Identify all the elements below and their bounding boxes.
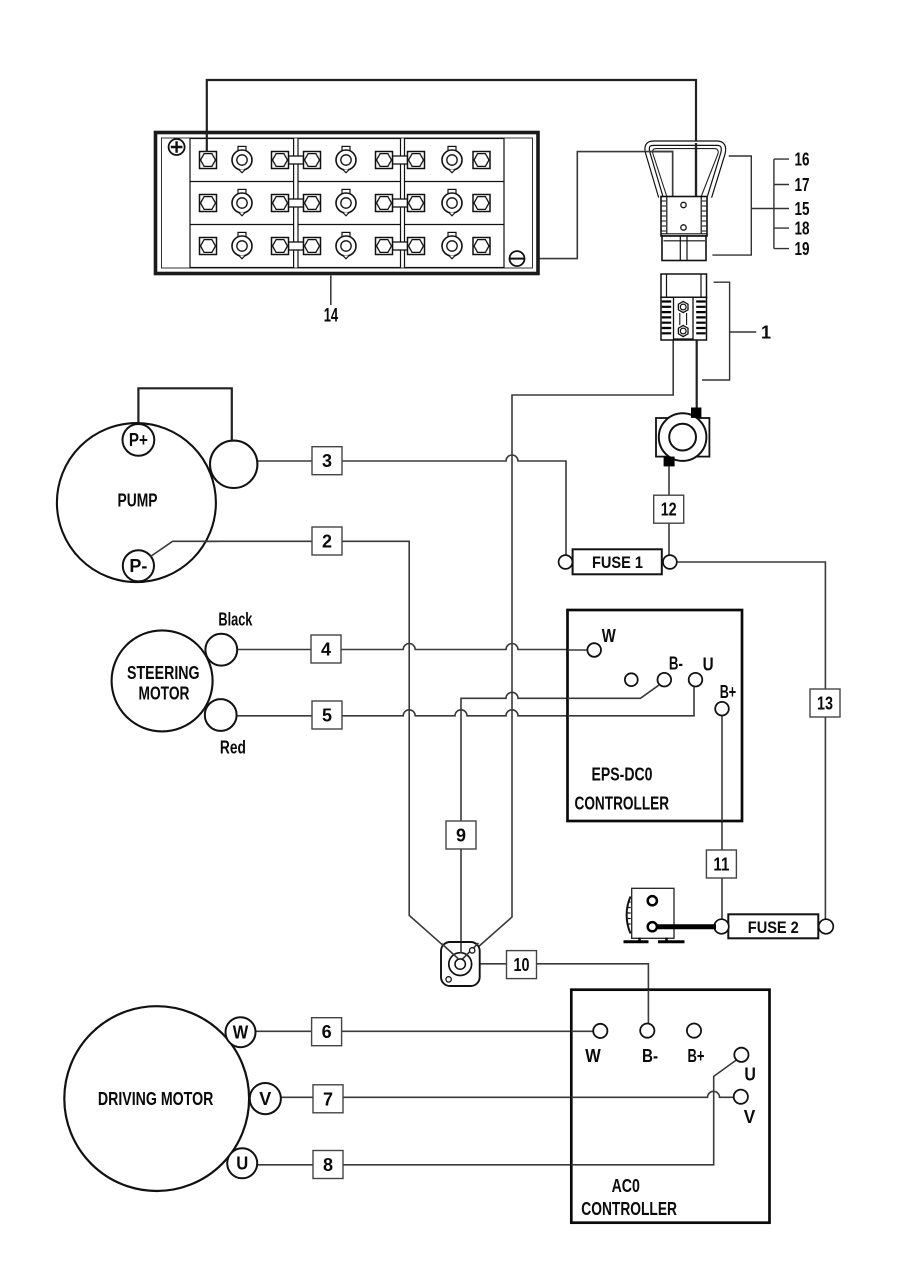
svg-text:CONTROLLER: CONTROLLER — [575, 794, 670, 814]
svg-text:P-: P- — [129, 556, 147, 576]
svg-text:9: 9 — [456, 826, 466, 846]
svg-text:13: 13 — [817, 694, 833, 714]
svg-text:B+: B+ — [720, 682, 737, 702]
svg-text:EPS-DC0: EPS-DC0 — [592, 765, 653, 785]
svg-text:DRIVING MOTOR: DRIVING MOTOR — [98, 1089, 214, 1109]
svg-text:17: 17 — [795, 175, 810, 195]
svg-text:Black: Black — [218, 609, 253, 629]
svg-text:8: 8 — [323, 1155, 333, 1175]
svg-text:3: 3 — [322, 451, 332, 471]
svg-text:7: 7 — [323, 1089, 333, 1109]
svg-text:AC0: AC0 — [612, 1176, 640, 1196]
svg-text:2: 2 — [322, 532, 332, 552]
svg-text:B-: B- — [642, 1046, 658, 1066]
svg-text:FUSE 2: FUSE 2 — [748, 919, 799, 937]
svg-text:B+: B+ — [688, 1046, 705, 1066]
svg-text:B-: B- — [669, 654, 683, 674]
svg-text:CONTROLLER: CONTROLLER — [581, 1199, 677, 1219]
svg-text:U: U — [703, 655, 714, 675]
svg-text:PUMP: PUMP — [118, 491, 158, 511]
svg-text:12: 12 — [661, 500, 677, 520]
svg-text:Red: Red — [220, 738, 246, 758]
svg-text:W: W — [602, 626, 616, 646]
svg-text:4: 4 — [321, 640, 331, 660]
svg-text:18: 18 — [795, 219, 810, 239]
svg-text:11: 11 — [713, 855, 729, 875]
svg-text:16: 16 — [795, 150, 810, 170]
svg-text:W: W — [585, 1046, 601, 1066]
svg-text:MOTOR: MOTOR — [139, 684, 190, 704]
svg-text:P+: P+ — [129, 430, 148, 450]
svg-text:14: 14 — [324, 305, 339, 327]
svg-text:W: W — [233, 1023, 249, 1043]
svg-text:FUSE 1: FUSE 1 — [592, 554, 643, 572]
svg-text:19: 19 — [795, 239, 810, 259]
svg-text:6: 6 — [322, 1022, 332, 1042]
svg-text:10: 10 — [514, 955, 530, 975]
svg-text:U: U — [236, 1154, 248, 1174]
svg-text:V: V — [744, 1107, 756, 1127]
svg-text:U: U — [744, 1065, 756, 1085]
svg-text:1: 1 — [761, 323, 771, 343]
svg-text:V: V — [259, 1089, 271, 1109]
svg-text:5: 5 — [322, 706, 332, 726]
svg-text:STEERING: STEERING — [127, 663, 200, 683]
svg-text:15: 15 — [795, 199, 810, 219]
